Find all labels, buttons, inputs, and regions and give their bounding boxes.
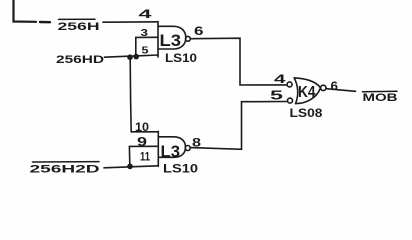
svg-text:LS10: LS10 — [163, 163, 198, 175]
svg-text:L3: L3 — [161, 142, 181, 161]
svg-text:5: 5 — [142, 44, 149, 56]
wire: dash continuing toward 256H label — [40, 21, 50, 24]
op AND gate K4 (74LS08, negative-logic OR shape) body — [294, 78, 298, 104]
wire: top-left corner entering from top edge — [14, 0, 37, 22]
net 256H (overline) — [58, 21, 100, 33]
op NAND gate U L3a (74LS10) body — [157, 22, 159, 58]
pin label 10 (gate L3b) — [135, 120, 149, 134]
net MOB (overline) — [363, 92, 398, 104]
designator K4 — [298, 84, 316, 101]
wire: 256HD to pin 5 — [105, 55, 159, 57]
svg-text:K4: K4 — [298, 84, 316, 101]
pin label 6 (gate L3a output) — [194, 24, 204, 38]
bubble: K4 input pin 4 — [287, 82, 292, 87]
svg-text:6: 6 — [194, 24, 204, 38]
wire: pin 10 entry — [131, 131, 158, 133]
bubble: K4 input pin 5 — [288, 98, 293, 103]
svg-text:256HD: 256HD — [56, 54, 104, 66]
svg-text:256H: 256H — [58, 21, 100, 33]
svg-text:4: 4 — [274, 72, 286, 86]
svg-text:6: 6 — [331, 79, 339, 93]
pin label 5 (gate K4) — [270, 89, 283, 103]
pin label 8 (gate L3b output) — [192, 136, 201, 150]
svg-text:11: 11 — [140, 152, 150, 164]
wire: pin 3 branch from 256HD junction — [136, 37, 158, 55]
pin label 11 (gate L3b) — [140, 152, 150, 164]
junction dot A (256HD to pin10 branch) — [127, 54, 133, 60]
svg-text:MOB: MOB — [363, 92, 398, 104]
wire: K4 pin6 to MOB — [326, 89, 355, 92]
svg-text:LS08: LS08 — [290, 108, 324, 120]
designator L3 (gate a) — [160, 31, 182, 50]
pin label 6 (K4 output) — [331, 79, 339, 93]
junction dot B (256HD to pin3 branch) — [133, 54, 139, 60]
designator L3 (gate b) — [161, 142, 181, 161]
part label LS10 (gate a) — [165, 53, 197, 65]
junction dot C (256H2D to pin9 branch) — [127, 164, 133, 170]
bubble: gate L3b output inverter — [185, 146, 190, 151]
wire: 256H2D to pin 11 — [104, 166, 158, 168]
pin label 4 (gate L3a) — [139, 7, 153, 21]
svg-text:256H2D: 256H2D — [30, 164, 100, 176]
svg-text:5: 5 — [270, 89, 283, 103]
wire: pin 9 branch from 256H2D — [129, 146, 158, 165]
svg-text:4: 4 — [139, 7, 153, 21]
wire: gate L3a pin6 to K4 pin4 — [190, 38, 287, 85]
pin label 4 (gate K4) — [274, 72, 286, 86]
wire: gate L3b pin8 to K4 pin5 — [190, 102, 287, 150]
wire: junction A down to pin 10 of gate L3b — [130, 59, 131, 132]
pin label 9 (gate L3b) — [137, 134, 147, 149]
part label LS08 — [290, 108, 324, 120]
net 256HD label — [56, 54, 104, 66]
svg-text:LS10: LS10 — [165, 53, 197, 65]
net 256H2D (overline) — [30, 164, 100, 176]
op NAND gate U L3b (74LS10) body — [157, 131, 159, 166]
pin label 3 (gate L3a) — [141, 27, 149, 39]
bubble: K4 output — [321, 85, 326, 90]
bubble: gate L3a output inverter — [186, 36, 191, 41]
svg-text:L3: L3 — [160, 31, 182, 50]
wire: 256H to pin 4 of U-L3a — [103, 21, 158, 23]
part label LS10 (gate b) — [163, 163, 198, 175]
pin label 5 (gate L3a) — [142, 44, 149, 56]
